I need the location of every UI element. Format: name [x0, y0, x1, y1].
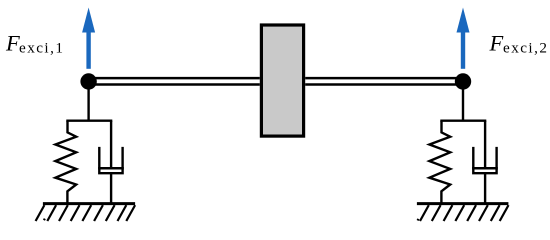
wire beam double line bottom [89, 83, 260, 86]
damper C1 rod lower [110, 173, 112, 204]
damper C2 rod lower [484, 173, 486, 204]
damper C1 (left) rod upper [110, 121, 112, 167]
ground 1 line [43, 202, 135, 205]
wire rod from node 2 down [462, 82, 464, 121]
spring K1 (left) [55, 121, 76, 205]
wire top bar right suspension [440, 119, 486, 121]
mass block M (gray rectangle) [261, 25, 303, 136]
svg-text:F: F [489, 31, 504, 56]
damper C1 piston plate [98, 167, 124, 170]
label F_exci,2 [489, 31, 549, 57]
damper C2 piston plate [472, 167, 498, 170]
force arrow F_exci,2 [457, 8, 470, 69]
spring K2 (right) [429, 121, 450, 205]
ground 2 hatching [418, 205, 509, 221]
ground 2 line [417, 202, 509, 205]
svg-text:exci,1: exci,1 [19, 39, 64, 56]
label F_exci,1 [5, 31, 64, 57]
damper C2 cylinder cup [473, 147, 496, 173]
svg-text:exci,2: exci,2 [503, 39, 548, 56]
damper C1 cylinder cup [99, 147, 122, 173]
wire top bar left suspension [66, 119, 112, 121]
svg-text:F: F [5, 31, 20, 56]
node 2 (right pivot dot) [455, 73, 471, 89]
damper C2 (right) rod upper [484, 121, 486, 167]
node 1 (left pivot dot) [80, 73, 96, 89]
ground 1 hatching [36, 205, 136, 221]
force arrow F_exci,1 [82, 8, 95, 69]
wire beam double line top [89, 77, 260, 80]
wire rod from node 1 down [87, 82, 89, 121]
